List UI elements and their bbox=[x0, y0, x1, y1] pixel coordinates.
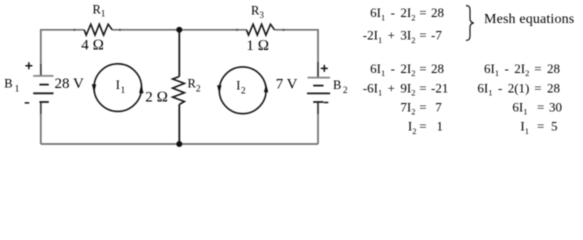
svg-text:1: 1 bbox=[437, 119, 444, 134]
svg-text:I1: I1 bbox=[116, 78, 126, 96]
svg-text:I1: I1 bbox=[520, 119, 529, 136]
svg-text:=: = bbox=[419, 5, 426, 20]
svg-text:I2: I2 bbox=[408, 119, 417, 136]
svg-text:7I2: 7I2 bbox=[400, 99, 415, 116]
svg-text:6I1 - 2I2: 6I1 - 2I2 bbox=[370, 61, 415, 78]
svg-text:1 Ω: 1 Ω bbox=[246, 38, 269, 54]
svg-text:5: 5 bbox=[551, 119, 558, 134]
svg-text:6I1 - 2I2: 6I1 - 2I2 bbox=[370, 5, 415, 22]
svg-text:-21: -21 bbox=[431, 80, 448, 95]
svg-text:30: 30 bbox=[549, 99, 562, 114]
svg-text:R1: R1 bbox=[93, 3, 106, 19]
svg-text:6I1 - 2(1): 6I1 - 2(1) bbox=[477, 80, 529, 97]
svg-text:28: 28 bbox=[547, 61, 560, 76]
svg-text:28: 28 bbox=[547, 80, 560, 95]
svg-text:28 V: 28 V bbox=[55, 76, 84, 92]
svg-text:B2: B2 bbox=[333, 78, 348, 96]
svg-text:=: = bbox=[419, 119, 426, 134]
svg-text:2 Ω: 2 Ω bbox=[145, 90, 168, 106]
svg-text:R3: R3 bbox=[251, 4, 264, 20]
svg-text:=: = bbox=[537, 119, 544, 134]
svg-text:-2I1 + 3I2: -2I1 + 3I2 bbox=[363, 28, 416, 45]
svg-text:6I1 - 2I2: 6I1 - 2I2 bbox=[484, 61, 529, 78]
svg-text:I2: I2 bbox=[236, 78, 246, 96]
svg-text:=: = bbox=[537, 99, 544, 114]
svg-text:=: = bbox=[534, 61, 541, 76]
svg-text:=: = bbox=[419, 99, 426, 114]
svg-text:4 Ω: 4 Ω bbox=[81, 38, 104, 54]
svg-text:6I1: 6I1 bbox=[512, 99, 527, 116]
svg-text:28: 28 bbox=[431, 61, 444, 76]
svg-text:=: = bbox=[419, 80, 426, 95]
svg-text:28: 28 bbox=[431, 5, 444, 20]
svg-text:-6I1 + 9I2: -6I1 + 9I2 bbox=[363, 80, 416, 97]
svg-text:R2: R2 bbox=[188, 76, 201, 94]
svg-text:=: = bbox=[419, 28, 426, 43]
svg-text:B1: B1 bbox=[4, 77, 19, 95]
svg-text:=: = bbox=[534, 80, 541, 95]
svg-text:Mesh equations: Mesh equations bbox=[484, 12, 574, 27]
svg-text:=: = bbox=[419, 61, 426, 76]
svg-text:-7: -7 bbox=[431, 28, 442, 43]
svg-text:7: 7 bbox=[435, 99, 442, 114]
svg-text:7 V: 7 V bbox=[276, 76, 298, 92]
